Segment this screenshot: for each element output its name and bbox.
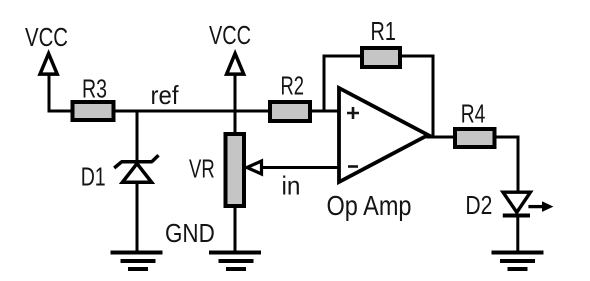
svg-text:R3: R3 (82, 74, 107, 104)
svg-text:GND: GND (165, 218, 215, 248)
svg-text:D1: D1 (81, 162, 106, 192)
svg-text:VCC: VCC (209, 20, 251, 50)
svg-text:VR: VR (189, 153, 215, 183)
svg-text:R2: R2 (281, 70, 305, 100)
svg-text:ref: ref (151, 80, 180, 110)
svg-text:R4: R4 (461, 99, 486, 129)
svg-text:R1: R1 (371, 16, 396, 46)
svg-text:in: in (282, 171, 301, 201)
svg-text:D2: D2 (465, 190, 492, 220)
svg-text:VCC: VCC (25, 22, 68, 52)
svg-text:Op Amp: Op Amp (327, 190, 412, 221)
